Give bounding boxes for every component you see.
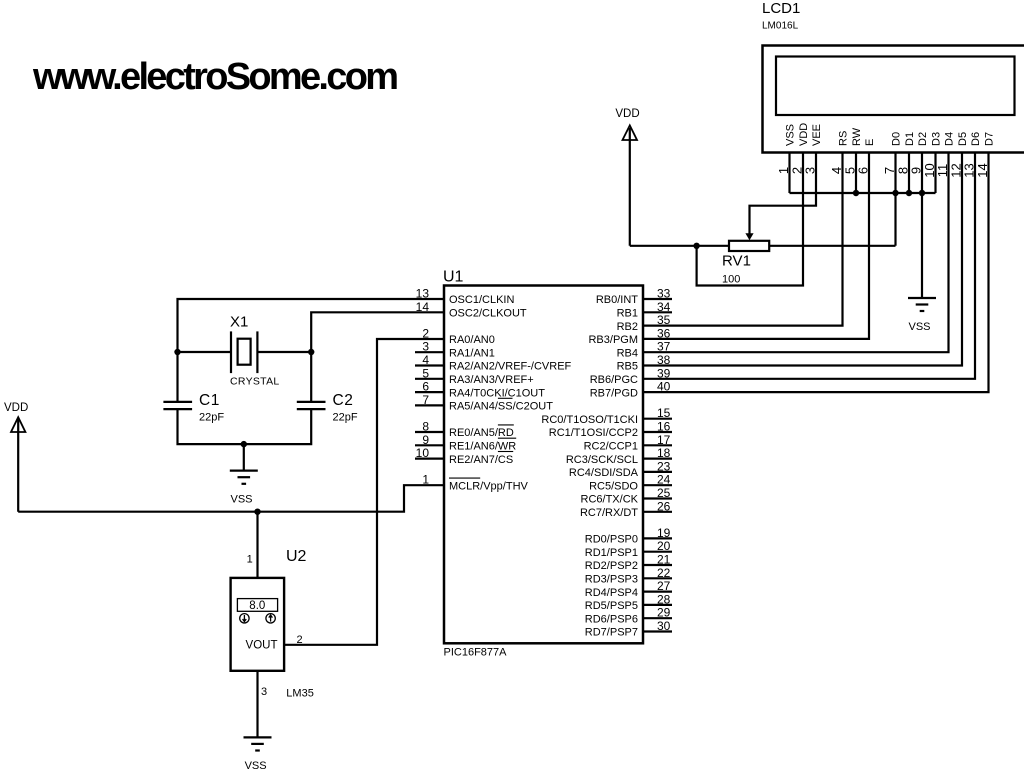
RV1 wiper arrowhead — [745, 233, 753, 240]
LCD1 display window — [776, 57, 1015, 116]
junction on bus at pin9 — [919, 190, 925, 196]
svg-text:8: 8 — [422, 420, 429, 434]
svg-text:100: 100 — [722, 274, 740, 286]
svg-text:RS: RS — [838, 131, 850, 146]
svg-text:U1: U1 — [443, 269, 464, 286]
svg-text:38: 38 — [657, 353, 671, 367]
junction on bus at pin8 — [906, 190, 912, 196]
svg-text:39: 39 — [657, 366, 671, 380]
svg-text:3: 3 — [422, 340, 429, 354]
svg-text:VOUT: VOUT — [246, 640, 278, 652]
svg-text:VDD: VDD — [4, 402, 28, 414]
svg-text:2: 2 — [297, 634, 303, 646]
U1 left pin stubs — [415, 352, 444, 458]
U1 left pin numbers — [416, 287, 430, 487]
svg-text:7: 7 — [422, 393, 429, 407]
U1 left pin name labels — [449, 294, 572, 492]
svg-text:40: 40 — [657, 380, 671, 394]
svg-text:16: 16 — [657, 420, 671, 434]
svg-text:RD4/PSP4: RD4/PSP4 — [585, 587, 638, 599]
LCD pin 11 wire to PIC RB4 — [643, 152, 949, 352]
LCD pin 9 wire to ground — [921, 152, 923, 298]
svg-text:CRYSTAL: CRYSTAL — [230, 376, 280, 388]
svg-text:OSC1/CLKIN: OSC1/CLKIN — [449, 294, 514, 306]
wire crystal bottom bus — [178, 409, 312, 444]
svg-text:RB7/PGD: RB7/PGD — [590, 387, 638, 399]
LCD pin 14 wire to PIC RB7 — [643, 152, 989, 392]
svg-text:10: 10 — [416, 446, 430, 460]
svg-text:4: 4 — [422, 353, 429, 367]
svg-text:E: E — [864, 139, 876, 146]
svg-text:18: 18 — [657, 446, 671, 460]
svg-text:D0: D0 — [891, 132, 903, 146]
svg-text:24: 24 — [657, 473, 671, 487]
wire U1 pin1 MCLR to VDD — [18, 485, 444, 512]
junction on bus at pin5 — [853, 190, 859, 196]
svg-text:RC1/T1OSI/CCP2: RC1/T1OSI/CCP2 — [549, 427, 638, 439]
svg-text:U2: U2 — [286, 548, 307, 565]
svg-text:RB6/PGC: RB6/PGC — [590, 374, 638, 386]
svg-text:VSS: VSS — [908, 321, 930, 333]
svg-text:15: 15 — [657, 406, 671, 420]
LCD pin numbers 1-14 (rotated) — [776, 163, 990, 177]
ground VSS under LCD — [908, 298, 936, 311]
LCD pin 8 wire — [908, 152, 910, 193]
svg-text:C1: C1 — [199, 392, 220, 409]
svg-text:RA2/AN2/VREF-/CVREF: RA2/AN2/VREF-/CVREF — [449, 361, 572, 373]
svg-text:5: 5 — [422, 366, 429, 380]
svg-text:VDD: VDD — [615, 108, 639, 120]
svg-text:RA0/AN0: RA0/AN0 — [449, 334, 495, 346]
ground VSS under U2 — [244, 737, 272, 750]
svg-text:19: 19 — [657, 526, 671, 540]
LCD pin 7 wire to RV1 right — [894, 152, 896, 246]
svg-text:33: 33 — [657, 287, 671, 301]
wire VDD to RV1 left — [630, 245, 729, 247]
junction at crystal right — [308, 349, 314, 355]
svg-text:RA4/T0CKI/C1OUT: RA4/T0CKI/C1OUT — [449, 387, 545, 399]
svg-text:RB5: RB5 — [617, 361, 638, 373]
U2 display window — [237, 599, 277, 612]
svg-text:RE0/AN5/RD: RE0/AN5/RD — [449, 427, 514, 439]
svg-text:RD5/PSP5: RD5/PSP5 — [585, 600, 638, 612]
LCD pin 2 wire to VDD net — [697, 152, 803, 286]
svg-text:RC7/RX/DT: RC7/RX/DT — [580, 507, 638, 519]
power VDD (top, near RV1) — [615, 108, 639, 246]
svg-text:RE1/AN6/WR: RE1/AN6/WR — [449, 441, 516, 453]
svg-text:LCD1: LCD1 — [762, 0, 800, 17]
svg-text:RC6/TX/CK: RC6/TX/CK — [581, 494, 639, 506]
svg-text:29: 29 — [657, 606, 671, 620]
svg-text:RC0/T1OSO/T1CKI: RC0/T1OSO/T1CKI — [541, 414, 638, 426]
wire U2 pin3 to ground — [256, 671, 258, 738]
LCD pin 6 wire to PIC RB3 — [643, 152, 869, 339]
ground VSS under crystal — [230, 471, 258, 484]
svg-text:RA1/AN1: RA1/AN1 — [449, 347, 495, 359]
svg-text:LM016L: LM016L — [762, 21, 799, 32]
svg-text:D6: D6 — [970, 132, 982, 146]
svg-text:37: 37 — [657, 340, 671, 354]
svg-text:D7: D7 — [984, 132, 996, 146]
svg-text:RB0/INT: RB0/INT — [596, 294, 638, 306]
ground bus wire under LCD — [790, 192, 936, 194]
svg-text:8.0: 8.0 — [249, 600, 265, 612]
junction on VDD wire — [693, 243, 699, 249]
LCD pin 5 wire — [855, 152, 857, 193]
wire U1 pin13 OSC1 — [178, 299, 445, 401]
svg-text:30: 30 — [657, 619, 671, 633]
svg-text:6: 6 — [422, 380, 429, 394]
svg-text:D1: D1 — [904, 132, 916, 146]
svg-text:21: 21 — [657, 553, 671, 567]
svg-text:RD1/PSP1: RD1/PSP1 — [585, 547, 638, 559]
svg-text:RB2: RB2 — [617, 321, 638, 333]
svg-text:36: 36 — [657, 326, 671, 340]
svg-text:RE2/AN7/CS: RE2/AN7/CS — [449, 454, 513, 466]
LCD pin 3 wire to RV1 wiper — [750, 152, 817, 234]
junction on bus at pin7 — [892, 190, 898, 196]
sensor U2 box — [231, 578, 285, 671]
U1 right pin stubs — [643, 299, 672, 632]
svg-text:26: 26 — [657, 499, 671, 513]
U1 right pin name labels — [541, 294, 638, 639]
svg-text:3: 3 — [261, 686, 267, 698]
svg-text:VSS: VSS — [230, 494, 252, 506]
svg-text:23: 23 — [657, 459, 671, 473]
wire U1 pin2 RA0 to U2 VOUT — [284, 339, 444, 645]
capacitor C2 — [297, 402, 326, 409]
svg-text:34: 34 — [657, 300, 671, 314]
svg-text:RB4: RB4 — [617, 347, 638, 359]
svg-text:D3: D3 — [931, 132, 943, 146]
U1 right pin numbers — [657, 287, 671, 634]
svg-text:27: 27 — [657, 579, 671, 593]
svg-text:RD3/PSP3: RD3/PSP3 — [585, 574, 638, 586]
microcontroller U1 box — [444, 286, 643, 644]
svg-text:www.electroSome.com: www.electroSome.com — [32, 56, 397, 98]
LCD pin 13 wire to PIC RB6 — [643, 152, 975, 379]
svg-text:9: 9 — [422, 433, 429, 447]
svg-text:25: 25 — [657, 486, 671, 500]
svg-text:22pF: 22pF — [333, 412, 358, 424]
wire U1 pin14 OSC2 — [311, 312, 444, 401]
junction at crystal ground — [241, 441, 247, 447]
svg-text:RA5/AN4/SS/C2OUT: RA5/AN4/SS/C2OUT — [449, 401, 553, 413]
junction on MCLR net above U2 — [254, 509, 260, 515]
svg-text:35: 35 — [657, 313, 671, 327]
svg-text:PIC16F877A: PIC16F877A — [444, 647, 508, 659]
svg-text:LM35: LM35 — [286, 688, 314, 700]
svg-text:RB3/PGM: RB3/PGM — [588, 334, 638, 346]
svg-text:MCLR/Vpp/THV: MCLR/Vpp/THV — [449, 480, 529, 492]
svg-text:OSC2/CLKOUT: OSC2/CLKOUT — [449, 308, 527, 320]
LCD1 outer box — [763, 46, 1024, 153]
U2 increment button — [266, 614, 275, 623]
svg-text:RV1: RV1 — [722, 253, 751, 270]
LCD pin 1 wire — [788, 152, 790, 193]
svg-text:22: 22 — [657, 566, 671, 580]
junction at crystal left — [174, 349, 180, 355]
capacitor C1 — [163, 402, 192, 409]
svg-text:RC2/CCP1: RC2/CCP1 — [584, 441, 638, 453]
svg-text:20: 20 — [657, 539, 671, 553]
svg-text:RD6/PSP6: RD6/PSP6 — [585, 613, 638, 625]
svg-text:VDD: VDD — [798, 123, 810, 146]
svg-text:VEE: VEE — [811, 124, 823, 146]
potentiometer RV1 — [729, 241, 896, 251]
svg-text:RB1: RB1 — [617, 308, 638, 320]
svg-text:RD0/PSP0: RD0/PSP0 — [585, 534, 638, 546]
svg-text:RD2/PSP2: RD2/PSP2 — [585, 560, 638, 572]
LCD pin 4 wire to PIC RB2 — [643, 152, 843, 326]
svg-text:RC5/SDO: RC5/SDO — [589, 480, 638, 492]
svg-text:D5: D5 — [957, 132, 969, 146]
LCD pin 10 wire — [934, 152, 936, 193]
svg-text:X1: X1 — [230, 314, 248, 331]
svg-text:VSS: VSS — [785, 124, 797, 146]
svg-text:RD7/PSP7: RD7/PSP7 — [585, 627, 638, 639]
wire to crystal ground — [243, 444, 245, 471]
svg-text:RW: RW — [851, 127, 863, 146]
svg-text:RA3/AN3/VREF+: RA3/AN3/VREF+ — [449, 374, 534, 386]
svg-text:1: 1 — [247, 553, 253, 565]
overbars on active-low pin names — [449, 398, 516, 478]
svg-text:RC4/SDI/SDA: RC4/SDI/SDA — [569, 467, 639, 479]
svg-text:22pF: 22pF — [199, 412, 224, 424]
svg-text:D4: D4 — [944, 132, 956, 146]
svg-text:D2: D2 — [917, 132, 929, 146]
crystal X1 — [178, 331, 312, 373]
power VDD (left) — [4, 402, 28, 512]
svg-text:C2: C2 — [333, 392, 354, 409]
svg-text:VSS: VSS — [245, 760, 267, 771]
LCD pin 12 wire to PIC RB5 — [643, 152, 962, 366]
svg-text:28: 28 — [657, 592, 671, 606]
wire U2 pin1 — [256, 512, 258, 578]
svg-text:17: 17 — [657, 433, 671, 447]
svg-text:RC3/SCK/SCL: RC3/SCK/SCL — [566, 454, 638, 466]
U2 decrement button — [240, 614, 249, 623]
LCD pin name labels (rotated) — [785, 123, 996, 146]
